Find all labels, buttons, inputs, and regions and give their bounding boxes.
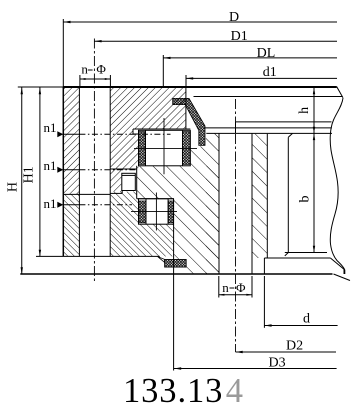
svg-text:n1: n1 xyxy=(44,158,57,173)
svg-text:d: d xyxy=(303,312,310,327)
svg-text:d1: d1 xyxy=(263,65,277,80)
svg-text:h: h xyxy=(297,107,312,114)
svg-text:D1: D1 xyxy=(231,29,248,44)
svg-text:n: n xyxy=(222,280,229,295)
svg-text:n1: n1 xyxy=(44,120,57,135)
svg-text:b: b xyxy=(298,196,313,203)
svg-text:133.134: 133.134 xyxy=(123,372,244,410)
svg-text:n1: n1 xyxy=(44,196,57,211)
svg-text:Φ: Φ xyxy=(96,61,106,76)
svg-text:n: n xyxy=(81,61,88,76)
svg-text:D3: D3 xyxy=(269,356,286,371)
svg-text:DL: DL xyxy=(257,46,276,61)
svg-text:H1: H1 xyxy=(22,166,37,183)
svg-text:D2: D2 xyxy=(286,339,303,354)
svg-text:Φ: Φ xyxy=(236,280,246,295)
svg-text:D: D xyxy=(229,10,239,25)
svg-text:H: H xyxy=(6,182,21,192)
